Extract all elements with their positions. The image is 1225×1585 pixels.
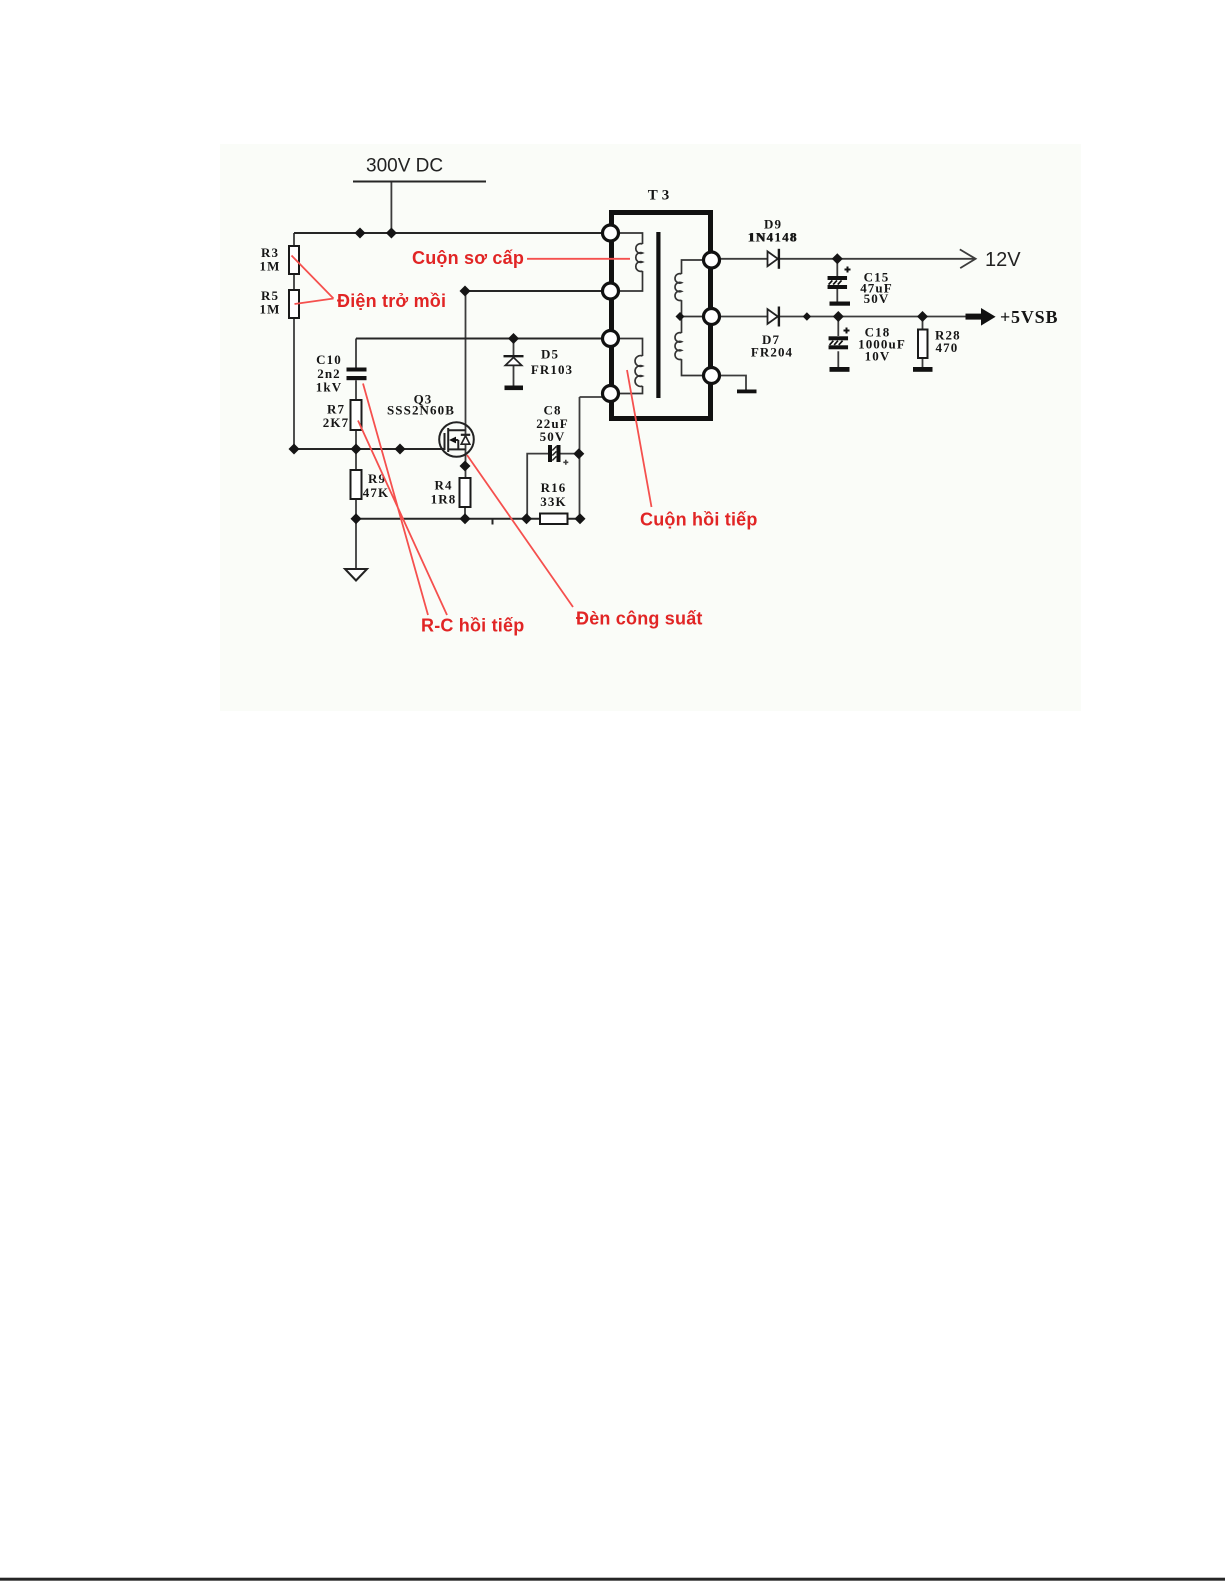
svg-text:1kV: 1kV (316, 380, 342, 395)
svg-text:T3: T3 (648, 188, 674, 204)
svg-text:50V: 50V (540, 429, 566, 444)
svg-text:FR204: FR204 (751, 345, 793, 360)
svg-text:1M: 1M (260, 259, 281, 274)
svg-text:SSS2N60B: SSS2N60B (387, 403, 455, 418)
svg-text:R16: R16 (541, 480, 567, 495)
svg-text:+5VSB: +5VSB (1000, 307, 1058, 327)
svg-text:10V: 10V (865, 348, 891, 363)
svg-text:300V DC: 300V DC (366, 156, 443, 177)
svg-text:12V: 12V (985, 249, 1021, 271)
svg-text:Cuộn sơ cấp: Cuộn sơ cấp (412, 248, 524, 268)
svg-text:50V: 50V (864, 291, 890, 306)
svg-text:1R8: 1R8 (431, 492, 457, 507)
svg-text:D5: D5 (541, 347, 559, 362)
svg-text:FR103: FR103 (531, 362, 573, 377)
svg-text:1N4148: 1N4148 (748, 230, 799, 245)
svg-text:Đèn công suất: Đèn công suất (576, 609, 703, 629)
svg-text:Cuộn hồi tiếp: Cuộn hồi tiếp (640, 510, 758, 530)
svg-text:R9: R9 (368, 471, 386, 486)
svg-text:R4: R4 (434, 478, 452, 493)
svg-text:1M: 1M (260, 302, 281, 317)
svg-text:2K7: 2K7 (323, 415, 349, 430)
svg-text:C10: C10 (316, 352, 342, 367)
svg-text:R-C hồi tiếp: R-C hồi tiếp (421, 616, 524, 636)
svg-text:33K: 33K (540, 494, 566, 509)
svg-text:470: 470 (936, 340, 959, 355)
svg-text:47K: 47K (363, 485, 389, 500)
svg-text:Điện trở mồi: Điện trở mồi (337, 291, 446, 311)
